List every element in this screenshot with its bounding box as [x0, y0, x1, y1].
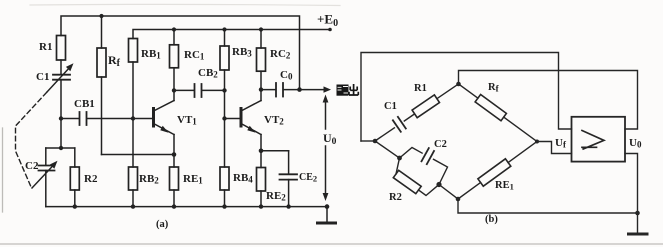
wire RC1 to collector node — [173, 68, 175, 101]
svg-text:VT1: VT1 — [177, 114, 197, 127]
svg-text:C1: C1 — [384, 101, 397, 112]
wire: feedback rail (a) top — [61, 16, 300, 90]
svg-text:RC2: RC2 — [270, 48, 291, 61]
node RC2 supply tap — [260, 30, 262, 49]
wire R1 to C1 — [60, 60, 62, 75]
svg-text:U0: U0 — [323, 131, 337, 147]
resistor RE1 (b) — [478, 159, 511, 186]
wire output arrow — [300, 89, 327, 91]
svg-text:C0: C0 — [280, 69, 293, 82]
wire node to CB1 — [61, 118, 79, 120]
wire RC2 to VT2 collector — [260, 71, 262, 100]
wire U0 measure arrows — [325, 98, 327, 129]
resistor R1 (b) — [412, 95, 439, 118]
op-amp U1 box — [572, 117, 626, 162]
op-amp U1 gain symbol — [582, 131, 604, 150]
node RB3 supply tap — [224, 30, 226, 47]
resistor R1 — [57, 36, 66, 61]
ground (b) — [637, 213, 639, 234]
resistor R2 branch — [74, 148, 76, 167]
resistor RB2 — [129, 167, 138, 190]
wire R1 to bridge top — [437, 84, 459, 99]
wire Uf to op-amp input — [537, 142, 572, 154]
transistor VT1 — [152, 109, 155, 127]
node output junction — [297, 87, 302, 92]
capacitor CB2 — [174, 89, 194, 91]
wire bridge bottom to RE1 — [458, 183, 481, 200]
wire RE1 to bridge right — [508, 142, 537, 163]
scan artifact bottom rule — [0, 243, 663, 245]
svg-text:VT2: VT2 — [264, 114, 284, 127]
wire RB3 to VT2 base — [224, 70, 226, 119]
svg-text:R1: R1 — [414, 83, 427, 94]
wire: +E0 supply rail — [133, 30, 330, 39]
node RB1/RB2 base junction — [131, 116, 135, 120]
wire RB1 to base node — [132, 62, 134, 119]
svg-text:+E0: +E0 — [317, 12, 338, 30]
resistor RB4 — [220, 167, 229, 190]
svg-text:C1: C1 — [36, 71, 49, 83]
capacitor C2 (variable) branch — [45, 148, 47, 165]
wire tank lower branch — [396, 158, 400, 174]
svg-text:CB2: CB2 — [198, 67, 218, 80]
svg-text:RC1: RC1 — [184, 49, 205, 62]
wire bridge top to Rf — [459, 84, 478, 98]
wire: tank top — [46, 147, 75, 149]
ground (a) — [325, 204, 330, 209]
resistor RB3 — [220, 46, 229, 70]
node C1/CB1/R2C2 junction — [59, 116, 63, 120]
wire C1 to R1 — [404, 114, 414, 121]
wire Rf down (crosses base wire) — [101, 77, 103, 155]
svg-text:RB2: RB2 — [139, 173, 159, 186]
capacitor CB1 — [79, 112, 81, 125]
resistor RC1 — [170, 45, 179, 68]
node Rf top tap — [101, 16, 103, 48]
node bridge top — [456, 82, 461, 87]
scan artifact left page edge — [2, 128, 4, 212]
svg-text:Uf: Uf — [555, 137, 567, 150]
resistor RB1 — [129, 39, 138, 63]
transistor VT2 — [240, 109, 243, 127]
svg-text:(b): (b) — [485, 214, 498, 225]
wire Rf to VT1 emitter — [102, 154, 175, 156]
wire: (b) output to bridge top — [459, 71, 638, 130]
node VT1 collector / CB2 — [172, 88, 176, 92]
wire op-amp output down — [625, 154, 638, 214]
wire CB1 to VT1 base — [87, 118, 154, 120]
wire tank to bridge bottom — [439, 185, 458, 200]
svg-text:(a): (a) — [156, 219, 169, 230]
svg-text:C2: C2 — [434, 139, 447, 150]
scan artifact faint top line — [30, 4, 340, 5]
node tank right — [436, 182, 441, 187]
wire tank upper branch — [400, 148, 423, 159]
resistor Rf (b) — [475, 95, 506, 121]
svg-text:CE2: CE2 — [299, 172, 317, 184]
resistor Rf — [97, 48, 106, 77]
wire arm to tank (b) — [375, 141, 400, 158]
capacitor C1 (variable) — [53, 74, 70, 76]
wire arm to C1 — [375, 128, 394, 141]
svg-text:U0: U0 — [629, 137, 642, 150]
node bridge right Uf — [535, 140, 539, 144]
node tank left — [397, 156, 402, 161]
svg-text:CB1: CB1 — [74, 98, 95, 110]
ground rail (a) — [46, 206, 327, 208]
wire Rf to bridge right — [504, 117, 537, 141]
resistor R2 (b) — [393, 170, 421, 193]
svg-text:R2: R2 — [389, 192, 402, 203]
node bridge bottom — [456, 197, 461, 202]
svg-text:Rf: Rf — [488, 82, 500, 94]
wire C1 down to node — [60, 80, 62, 119]
svg-text:R1: R1 — [39, 41, 52, 53]
wire RB2 riser (crosses emitter wire) — [132, 119, 134, 168]
capacitor CE2 — [261, 150, 289, 152]
svg-text:RB4: RB4 — [233, 172, 253, 185]
label output chinese 输出 — [337, 84, 359, 96]
svg-text:RB3: RB3 — [232, 46, 252, 59]
resistor RE2 — [260, 151, 262, 168]
wire: (b) outer feedback loop top — [361, 53, 572, 142]
node C0 tap — [259, 87, 263, 91]
resistor RC2 — [257, 48, 266, 71]
svg-text:RB1: RB1 — [141, 48, 161, 61]
wire RB4 riser — [224, 119, 226, 168]
node RC1 supply tap — [173, 30, 175, 45]
svg-text:Rf: Rf — [108, 53, 121, 69]
svg-text:RE1: RE1 — [495, 180, 514, 192]
node VT2 emitter junction — [259, 149, 264, 154]
node VT1 emitter junction — [172, 152, 177, 157]
node bridge left — [361, 140, 375, 142]
capacitor C0 — [261, 89, 276, 91]
resistor RE1 — [173, 155, 175, 168]
wire node down to C2R2 tank — [60, 119, 62, 149]
ganged capacitor dashed link C1-C2 — [16, 93, 47, 189]
capacitor C2 (b) — [422, 148, 429, 161]
wire: (b) ground rail — [458, 199, 638, 213]
svg-text:RE1: RE1 — [183, 173, 203, 186]
svg-text:R2: R2 — [84, 173, 98, 185]
svg-text:RE2: RE2 — [266, 190, 286, 203]
svg-text:C2: C2 — [25, 160, 39, 172]
capacitor C1 (b) — [393, 120, 401, 132]
